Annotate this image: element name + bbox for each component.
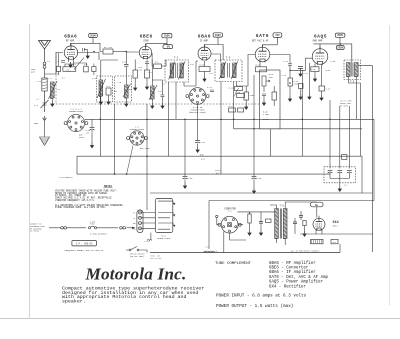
svg-text:C-16: C-16 [188, 177, 194, 180]
electrolytic capacitor C-24 [195, 141, 200, 143]
svg-text:C-11: C-11 [207, 86, 213, 89]
chassis ground (L-2) [51, 101, 54, 106]
wire antenna lead lower [44, 91, 46, 112]
choke L-13 on A-lead [208, 201, 210, 250]
control head coils [158, 201, 173, 229]
voltage box V3 plate voltage [213, 33, 222, 37]
tube socket bottom view S3 (P-1B 7B) [186, 88, 209, 105]
svg-text:C-6: C-6 [122, 61, 127, 64]
IF transformer T-2 (1st IF) [165, 60, 189, 82]
chassis ground (V3 cathode) [203, 76, 206, 81]
resistor R-2 [57, 66, 61, 71]
resistor R-16 [311, 67, 319, 72]
tube socket bottom view S1 (L-1 & L-2) [64, 114, 88, 131]
resistor C-18 [319, 86, 325, 91]
coil T-5 primary [347, 63, 351, 77]
svg-text:speaker.: speaker. [62, 299, 86, 305]
svg-text:RECT: RECT [333, 225, 339, 228]
chassis ground (R-5) [134, 85, 137, 90]
resistor R-12 [272, 92, 277, 100]
svg-text:FREQUENCY RANGE: 525 TO 1615 K: FREQUENCY RANGE: 525 TO 1615 KC [65, 249, 104, 252]
svg-text:Motorola Inc.: Motorola Inc. [85, 265, 187, 284]
electrolytic capacitor C-2B filter [337, 171, 342, 173]
antenna [39, 41, 51, 62]
power section enclosure top [150, 192, 372, 194]
svg-text:DET AVC & AF: DET AVC & AF [252, 39, 269, 42]
on-off switch SW-1 [126, 247, 143, 251]
resistor R-5 [133, 70, 138, 78]
earth ground (hatched) [40, 137, 50, 146]
svg-text:6BA6 - IF Amplifier: 6BA6 - IF Amplifier [269, 270, 316, 275]
svg-text:T-6: T-6 [279, 205, 284, 208]
svg-text:T-2: T-2 [174, 57, 179, 60]
capacitor C-11 [210, 90, 214, 92]
capacitor C-21 [259, 222, 263, 224]
bus A-lead (YEL) [77, 173, 330, 175]
svg-text:250V: 250V [90, 35, 96, 38]
svg-text:CONNECTIONS: CONNECTIONS [130, 128, 145, 131]
svg-text:IN TRUCK: IN TRUCK [30, 230, 40, 233]
svg-text:(ON VOL CONT): (ON VOL CONT) [130, 255, 145, 258]
svg-text:C-19: C-19 [257, 177, 263, 180]
vertical feeder x=254 with capacitor C-19 [253, 75, 255, 176]
svg-text:C-12: C-12 [209, 72, 214, 75]
wires T-6 [270, 205, 277, 243]
svg-text:GND: GND [34, 122, 39, 125]
tube V4 6AT6 envelope [255, 45, 270, 63]
vertical feeder x=147 [146, 104, 148, 210]
svg-text:L-2: L-2 [49, 77, 52, 80]
coil T-5 secondary [355, 63, 359, 77]
svg-text:C-24: C-24 [201, 141, 207, 144]
wire V4 plate to V5 grid [270, 55, 313, 71]
vertical feeder x=197.6 with capacitor C-24 [197, 105, 199, 141]
svg-text:250V: 250V [337, 34, 343, 37]
wire osc section [126, 52, 139, 85]
chassis ground (V5) [308, 94, 311, 99]
resistor R-7 [145, 70, 150, 78]
chassis ground (L-6) [151, 103, 154, 108]
svg-text:VIBRATOR FREQUENCY 115 C.P.S.: VIBRATOR FREQUENCY 115 C.P.S. [55, 199, 95, 202]
vertical feeder x=185 with capacitor C-16 [184, 119, 186, 176]
svg-text:1 MEG: 1 MEG [263, 113, 270, 116]
svg-text:SPARE PLATE: SPARE PLATE [157, 237, 171, 240]
output transformer T-5 [344, 60, 361, 80]
chassis ground (V1 cathode) [69, 62, 72, 67]
chassis ground (R-22) [248, 230, 251, 235]
wire vibrator to bus [223, 232, 225, 253]
voltage box V2 oscillator voltage [163, 45, 173, 49]
wires pins to head [142, 213, 156, 229]
resistor C-4B [92, 67, 96, 72]
capacitor C-13 [262, 94, 266, 96]
tube V5 6AQ5 envelope [312, 46, 328, 65]
tube socket bottom view S2 (L-7) [127, 131, 148, 145]
chassis ground (L-5) [125, 101, 128, 106]
vertical feeder x=176 [175, 82, 177, 119]
svg-text:BOT VIEW: BOT VIEW [140, 147, 150, 150]
svg-text:PWR AMP: PWR AMP [313, 39, 323, 42]
tube V6 6X4 rectifier envelope [313, 216, 325, 231]
chassis ground (R-18) [299, 94, 302, 99]
AVC bus (dashed) [53, 103, 260, 105]
vertical feeder x=168.5 [168, 82, 170, 156]
resistor R-23 [303, 221, 306, 226]
chassis ground (R-7) [145, 84, 148, 89]
resistor R-4 [106, 88, 111, 95]
svg-text:POWER INPUT - 6.8 amps at 6.3: POWER INPUT - 6.8 amps at 6.3 volts [216, 294, 307, 299]
svg-text:VOL: VOL [269, 76, 274, 79]
resistor R-3 [63, 67, 76, 72]
tube socket bottom view E-1 vibrator [218, 216, 241, 233]
voltage box V1 plate voltage [89, 33, 98, 37]
voltage box V5 screen voltage [336, 46, 344, 50]
IF transformer T-3 (2nd IF) [215, 60, 242, 82]
AVC feed to V1 grid (dashed) [55, 53, 57, 105]
resistor R-8 [154, 64, 162, 69]
svg-text:C-9: C-9 [190, 63, 193, 66]
coupling capacitor C-14 [288, 64, 292, 66]
vertical feeder x=362 [361, 156, 363, 193]
label box SP-2 [311, 239, 323, 243]
svg-text:6X4 - Rectifier: 6X4 - Rectifier [269, 284, 306, 289]
svg-text:250V: 250V [337, 47, 343, 50]
resistor R-13 [256, 67, 267, 72]
wire from V5 boxes / plate to T-5 [313, 37, 352, 62]
svg-text:POWER OUTPUT - 1.5 watts (max): POWER OUTPUT - 1.5 watts (max) [216, 304, 293, 309]
lead-in plug J3 [120, 227, 126, 230]
svg-text:I-F : 455 KC: I-F : 455 KC [76, 243, 93, 246]
control head box SP-1 [155, 199, 173, 233]
electrolytic capacitor C-2C filter [347, 171, 352, 173]
svg-text:VIEW: VIEW [79, 136, 85, 139]
capacitor C-17 [298, 67, 303, 69]
wire vibrator left pin [217, 218, 220, 225]
chassis ground (R-14) [288, 96, 291, 101]
svg-text:C-19: C-19 [331, 60, 336, 63]
bus AVC return [234, 128, 362, 130]
svg-text:6AT6: 6AT6 [256, 33, 269, 39]
wire switch to bus [143, 250, 147, 253]
wire S2 leader to A-lead junction [127, 146, 133, 175]
svg-text:IF AMP: IF AMP [200, 39, 209, 42]
capacitor C-7 [145, 62, 149, 64]
ground (antenna) [42, 116, 46, 121]
electrolytic capacitor C-19 [252, 177, 257, 179]
chassis ground (C-21) [259, 230, 262, 235]
antenna choke L-14 [42, 78, 47, 91]
chassis ground (C-13) [262, 100, 265, 105]
tube V1 6BA6 envelope [64, 43, 77, 59]
vertical feeder x=233.6 [233, 82, 235, 129]
filter capacitor block C-2 (dashed) [324, 167, 356, 183]
bus A-lead (GRN) [77, 155, 362, 157]
resistor R-10 [199, 67, 210, 72]
svg-text:OF SPKR: OF SPKR [340, 104, 349, 107]
chassis ground (C-8) [161, 103, 164, 108]
resistor R-21 [235, 87, 243, 91]
svg-text:R-7: R-7 [149, 71, 152, 74]
svg-text:K=ONE THOUSAND OHMS. ALL CAPS: K=ONE THOUSAND OHMS. ALL CAPS IN MFD. [55, 206, 106, 209]
svg-text:6AQ5 - Power Amplifier: 6AQ5 - Power Amplifier [269, 280, 324, 285]
svg-text:P-1A CHASSIS: P-1A CHASSIS [59, 176, 73, 179]
svg-text:W LEAD ASSEMBLY: W LEAD ASSEMBLY [90, 233, 108, 236]
svg-text:6AT6 - Det, AVC & AF Amp: 6AT6 - Det, AVC & AF Amp [269, 276, 329, 280]
control head receptacle P-1 [137, 210, 143, 233]
neutralizing capacitor C-5 [83, 48, 88, 53]
capacitor C-22 [299, 216, 303, 218]
voltage box V2 plate voltage [162, 33, 172, 37]
chassis ground (C-16) [183, 183, 186, 188]
svg-text:6BE6 - Converter: 6BE6 - Converter [269, 267, 309, 271]
resistor C-15 [237, 94, 245, 98]
electrolytic capacitor C-16 [183, 177, 188, 179]
svg-text:C-14: C-14 [283, 60, 289, 63]
resistor R-18 [299, 84, 304, 89]
chassis ground (C-18) [320, 95, 323, 100]
power supply bottom bus [150, 252, 340, 254]
voltage box V5 plate voltage [335, 33, 345, 37]
svg-text:C-17: C-17 [304, 72, 310, 75]
wire V1 cathode drops [65, 59, 87, 67]
capacitor C-3 [61, 61, 65, 63]
chassis ground (R-11) [245, 104, 248, 109]
wire T-3 to V4 [237, 55, 256, 87]
resistor R-17 [229, 108, 236, 112]
padder capacitor C-8 [161, 95, 165, 97]
vertical feeder x=221 [220, 82, 222, 175]
chassis ground (C-2) [338, 186, 341, 191]
svg-text:R-2: R-2 [62, 77, 65, 80]
wire from V1 voltage box [71, 38, 104, 52]
coil L-4 RF coil [99, 80, 103, 97]
tube V2 6BE6 envelope [139, 44, 151, 59]
voltage box V4 plate voltage [273, 33, 282, 38]
wire T-5 secondary to speaker line [358, 66, 372, 252]
resistor R-1 [103, 49, 113, 54]
oscillator coil assembly box (dashed) [115, 76, 132, 102]
IF frequency box [72, 241, 97, 246]
chassis ground (L-4) [99, 99, 102, 104]
resistor R-14 [288, 78, 293, 86]
wires 6X4 [316, 230, 322, 234]
wire feeder into receptacle [147, 209, 151, 240]
svg-text:-8V: -8V [166, 46, 171, 49]
chassis ground (C-5) [86, 53, 89, 58]
svg-text:ANT: ANT [31, 71, 36, 74]
wire to earth ground [44, 121, 46, 137]
resistor R-11 [244, 92, 249, 100]
svg-text:T-3: T-3 [226, 57, 231, 60]
chassis ground (R-16) [313, 76, 316, 81]
bus B+ line [85, 118, 374, 120]
svg-text:6BA6 - RF Amplifier: 6BA6 - RF Amplifier [269, 261, 316, 266]
svg-text:TUBE COMPLEMENT: TUBE COMPLEMENT [215, 262, 252, 266]
svg-text:C-2: C-2 [57, 88, 60, 91]
svg-text:CONV: CONV [143, 39, 149, 42]
svg-text:250V: 250V [164, 35, 170, 38]
resistor R-20 [342, 155, 347, 160]
junction dots [93, 51, 95, 53]
lead-in plug J2 [61, 227, 67, 230]
svg-text:250V: 250V [215, 34, 221, 37]
svg-text:RF AMP: RF AMP [66, 39, 75, 42]
coil T-6 secondary [283, 209, 287, 239]
chassis ground (C-24) [196, 147, 199, 152]
chassis ground (C-10) [90, 143, 93, 148]
chassis ground (R-23) [303, 231, 306, 236]
wire V3 plate to T-3 [211, 54, 220, 62]
svg-text:R-1 47K: R-1 47K [104, 46, 113, 49]
tube V3 6BA6 envelope [198, 45, 211, 61]
coil L-2 antenna coil [51, 82, 55, 99]
vertical feeder x=302 [301, 70, 303, 156]
svg-text:ALL IN PWR SUPPLY CHASSIS: ALL IN PWR SUPPLY CHASSIS [291, 250, 320, 253]
wire antenna to V1 grid [45, 53, 64, 75]
chassis ground (R-4) [107, 99, 110, 104]
capacitor C-23 [293, 222, 297, 224]
coil T-6 primary [275, 209, 279, 239]
svg-text:B+: B+ [315, 204, 319, 207]
svg-text:R-17: R-17 [229, 105, 234, 108]
enclosure right edge [339, 244, 341, 253]
ANT arrowhead into receptacle [127, 227, 136, 229]
coil L-5 oscillator coil [125, 85, 129, 98]
trimmer capacitor C-1 [41, 100, 49, 108]
tuning capacitor C-2 (variable) [74, 58, 84, 70]
resistor C-4 [84, 66, 89, 72]
wire dial lamp feeders [100, 82, 114, 174]
volume control enclosure [260, 70, 281, 129]
svg-text:CH= HS-405: CH= HS-405 [150, 257, 162, 260]
svg-text:C-1: C-1 [34, 104, 39, 107]
wire left edge of A-lead loop [76, 156, 78, 174]
wire T-2 to V3 grid [184, 61, 198, 86]
vertical feeder x=270.5 [270, 129, 272, 156]
RF coil L-4 assembly (dashed) [97, 76, 113, 102]
capacitor C-6 [124, 65, 129, 67]
wire junction V5 plate [339, 43, 340, 44]
B+ output box [311, 202, 323, 207]
resistor C-20 [266, 219, 272, 223]
heater return line [300, 233, 373, 235]
volume control R-9 [262, 76, 270, 92]
resistor R-22 [248, 214, 251, 223]
capacitor C-10 drop [91, 119, 93, 127]
chassis ground (C-19) [252, 188, 255, 193]
electrolytic capacitor C-10 [90, 128, 95, 130]
wire from V2 boxes [146, 38, 167, 47]
coil L-6 oscillator padder [151, 86, 155, 99]
antenna connector J1 [43, 62, 46, 78]
A+ return wire right side [209, 119, 374, 200]
wire L-4 to V2 grid [101, 60, 118, 80]
svg-text:75V: 75V [275, 34, 280, 37]
label box F-1 fuse [331, 239, 338, 243]
electrolytic capacitor C-2A filter [328, 171, 333, 173]
resistor C-20b [238, 108, 244, 112]
wire plate V1 to coupling [77, 53, 99, 61]
B+ feeders down to filter caps [330, 100, 349, 169]
chassis ground (C-17) [299, 71, 302, 76]
svg-text:CONNECTIONS: CONNECTIONS [69, 110, 84, 113]
